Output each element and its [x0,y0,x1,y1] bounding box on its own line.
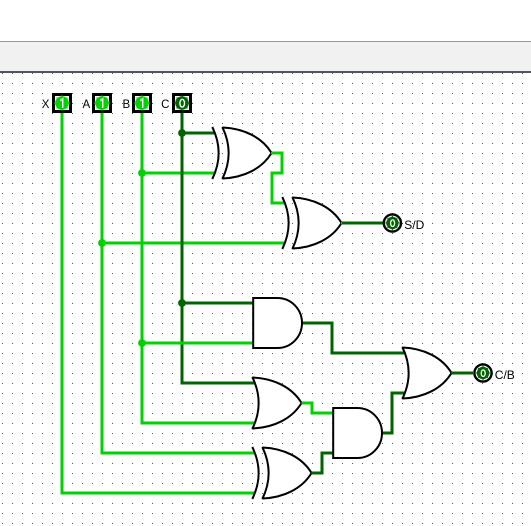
svg-text:B: B [123,99,131,111]
svg-text:C: C [161,99,169,111]
svg-text:X: X [42,99,50,111]
svg-text:S/D: S/D [404,218,424,232]
svg-text:A: A [83,99,91,111]
svg-text:C/B: C/B [495,368,515,382]
